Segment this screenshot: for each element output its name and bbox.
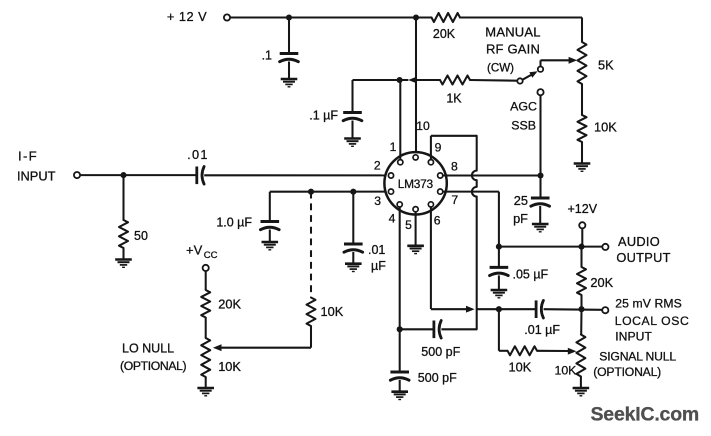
svg-text:25: 25 <box>514 193 528 208</box>
svg-text:4: 4 <box>389 212 396 226</box>
svg-text:.1 µF: .1 µF <box>309 109 338 123</box>
svg-text:10: 10 <box>416 119 430 133</box>
svg-text:20K: 20K <box>218 297 241 312</box>
svg-text:1: 1 <box>390 140 397 154</box>
svg-text:1K: 1K <box>446 91 462 105</box>
svg-text:.01: .01 <box>368 243 385 257</box>
svg-text:(OPTIONAL): (OPTIONAL) <box>120 359 187 373</box>
svg-text:.1: .1 <box>262 49 272 63</box>
svg-text:10K: 10K <box>218 359 241 374</box>
svg-text:(OPTIONAL): (OPTIONAL) <box>593 365 661 379</box>
svg-text:AUDIO: AUDIO <box>618 234 660 249</box>
svg-text:5: 5 <box>405 218 412 232</box>
svg-text:20K: 20K <box>590 275 613 290</box>
svg-text:25 mV RMS: 25 mV RMS <box>615 296 682 310</box>
svg-text:20K: 20K <box>433 27 456 41</box>
svg-text:2: 2 <box>374 159 381 173</box>
svg-text:.05 µF: .05 µF <box>513 267 549 281</box>
svg-text:SeekIC.com: SeekIC.com <box>591 404 700 426</box>
svg-text:I-F: I-F <box>18 149 38 164</box>
svg-text:10K: 10K <box>594 120 617 135</box>
svg-text:AGC: AGC <box>510 99 537 113</box>
svg-text:MANUAL: MANUAL <box>485 25 540 40</box>
svg-text:5K: 5K <box>598 57 614 72</box>
svg-text:9: 9 <box>435 140 442 154</box>
svg-text:10K: 10K <box>555 363 578 377</box>
svg-text:1.0 µF: 1.0 µF <box>216 216 252 230</box>
svg-text:pF: pF <box>513 211 528 226</box>
svg-text:500 pF: 500 pF <box>421 345 460 359</box>
svg-text:3: 3 <box>374 194 381 208</box>
svg-text:INPUT: INPUT <box>615 329 652 343</box>
svg-text:.01 µF: .01 µF <box>524 323 560 337</box>
svg-text:7: 7 <box>451 193 458 207</box>
svg-text:CC: CC <box>204 250 218 261</box>
svg-text:8: 8 <box>451 160 458 174</box>
svg-text:+12V: +12V <box>568 202 598 216</box>
svg-text:LM373: LM373 <box>398 177 434 191</box>
svg-text:SIGNAL NULL: SIGNAL NULL <box>599 349 676 363</box>
svg-text:(CW): (CW) <box>487 62 514 75</box>
svg-text:INPUT: INPUT <box>17 168 56 183</box>
svg-text:OUTPUT: OUTPUT <box>616 250 670 265</box>
svg-text:LO NULL: LO NULL <box>122 342 174 356</box>
svg-text:500 pF: 500 pF <box>418 371 457 385</box>
svg-text:RF GAIN: RF GAIN <box>486 42 540 57</box>
svg-text:+ 12 V: + 12 V <box>167 9 207 24</box>
svg-text:+V: +V <box>186 243 203 258</box>
svg-text:50: 50 <box>134 229 148 243</box>
svg-text:.01: .01 <box>187 147 209 162</box>
svg-text:6: 6 <box>434 214 441 228</box>
svg-text:SSB: SSB <box>511 118 536 132</box>
svg-text:µF: µF <box>371 259 386 273</box>
svg-text:10K: 10K <box>509 359 532 374</box>
svg-text:10K: 10K <box>321 304 344 319</box>
svg-text:LOCAL OSC: LOCAL OSC <box>615 314 690 328</box>
